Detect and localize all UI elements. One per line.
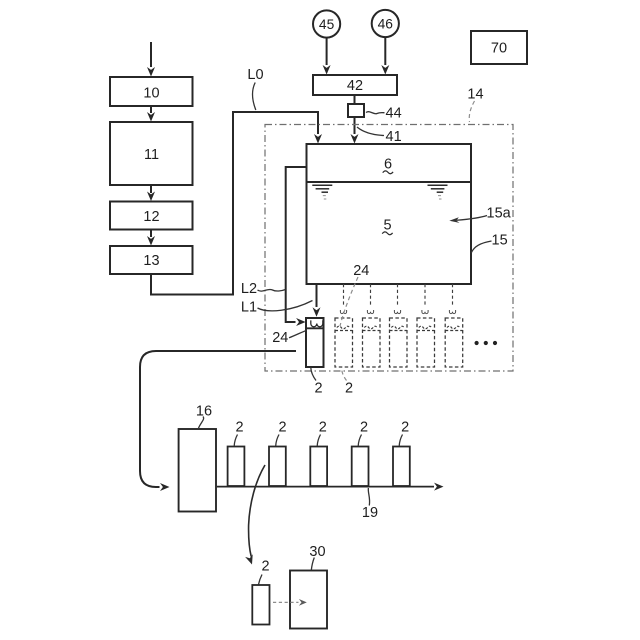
svg-text:2: 2	[235, 420, 243, 436]
svg-text:44: 44	[386, 106, 402, 122]
svg-text:24: 24	[272, 330, 288, 346]
svg-text:30: 30	[309, 544, 325, 560]
svg-text:2: 2	[262, 559, 270, 575]
svg-text:41: 41	[386, 129, 402, 145]
svg-text:14: 14	[467, 87, 483, 103]
svg-text:2: 2	[314, 381, 322, 397]
svg-text:2: 2	[401, 420, 409, 436]
svg-text:15a: 15a	[487, 206, 512, 222]
svg-text:L0: L0	[247, 67, 263, 83]
svg-text:45: 45	[319, 17, 335, 32]
svg-text:15: 15	[492, 233, 508, 249]
svg-text:2: 2	[345, 381, 353, 397]
svg-text:16: 16	[196, 404, 212, 420]
svg-text:5: 5	[383, 218, 391, 234]
svg-text:11: 11	[144, 147, 159, 163]
svg-text:10: 10	[143, 86, 159, 102]
svg-text:2: 2	[319, 420, 327, 436]
svg-text:2: 2	[278, 420, 286, 436]
svg-text:2: 2	[360, 420, 368, 436]
svg-text:L2: L2	[241, 281, 257, 297]
svg-text:70: 70	[491, 41, 507, 57]
svg-text:L1: L1	[241, 300, 257, 316]
svg-text:13: 13	[143, 253, 159, 269]
svg-text:24: 24	[353, 263, 369, 279]
svg-text:42: 42	[347, 78, 363, 94]
svg-text:6: 6	[384, 157, 392, 173]
svg-text:19: 19	[362, 505, 378, 521]
svg-text:12: 12	[143, 209, 159, 225]
svg-text:46: 46	[378, 16, 394, 31]
